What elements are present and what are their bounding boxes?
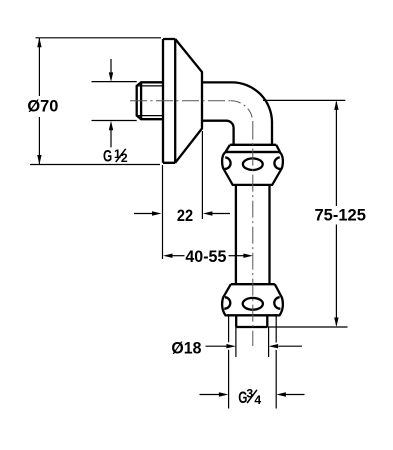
svg-text:2: 2	[121, 151, 128, 165]
union nut top: center ellipse	[243, 158, 263, 170]
dim 22: left arrow shaft	[134, 213, 153, 215]
horizontal centerline through flange axis	[130, 100, 231, 102]
dim G1/2: bottom extension line	[92, 120, 137, 122]
arrow Ø70 bottom (down)	[37, 155, 41, 165]
dim 75-125: top extension line	[263, 99, 345, 101]
arrow 40-55 left (left)	[163, 254, 173, 258]
arrow 22 left (right)	[152, 211, 162, 215]
arrow G3/4 right (left)	[276, 392, 286, 396]
dim 22 / 40-55: left extension line (wall face)	[162, 165, 164, 259]
centerline arc in elbow	[231, 101, 253, 123]
wall flange plate	[163, 39, 175, 163]
arrow Ø18 left (right)	[226, 344, 236, 348]
dim 40-55: right shaft	[229, 255, 245, 257]
dim G3/4: right arrow shaft	[285, 394, 305, 396]
union nut top: step line	[230, 144, 276, 146]
arrow Ø70 top (up)	[37, 38, 41, 48]
arrow 22 right (left)	[203, 211, 213, 215]
nipple thread-start line	[140, 82, 142, 119]
union nut top: right facet arc	[274, 157, 280, 169]
dim Ø70: bottom extension line	[30, 164, 160, 166]
dim G1/2: upper arrow shaft	[110, 59, 112, 74]
flange cone	[175, 39, 202, 163]
thin thread minor lines of nipple	[137, 86, 163, 116]
dim 22: right arrow shaft	[211, 213, 230, 215]
arrow 75-125 top (up)	[334, 100, 338, 110]
dim 75-125: bottom extension line	[268, 326, 348, 328]
svg-text:75-125: 75-125	[314, 206, 366, 224]
ext lines from nut corners down through G3/4 dim	[229, 316, 277, 409]
svg-text:4: 4	[254, 393, 261, 407]
union nut top: chamfer band	[226, 145, 281, 152]
label G3/4	[238, 387, 261, 407]
union nut bottom: left facet arc	[224, 297, 230, 309]
svg-text:40-55: 40-55	[185, 248, 226, 266]
dim Ø70: dimension line	[38, 38, 40, 165]
outlet stub	[236, 315, 267, 327]
dim 75-125: dimension line	[335, 102, 337, 325]
dim G3/4: left arrow shaft	[200, 394, 220, 396]
svg-text:Ø70: Ø70	[27, 98, 58, 116]
arrow G1/2 lower (up)	[109, 121, 113, 131]
elbow pipe outline	[202, 82, 272, 144]
svg-text:G: G	[103, 147, 112, 165]
union nut bottom: right facet arc	[274, 297, 280, 309]
vertical centerline through pipe axis	[252, 123, 254, 346]
svg-text:22: 22	[177, 207, 193, 225]
dim Ø18: right arrow shaft	[278, 345, 302, 347]
label G1/2	[103, 147, 128, 166]
centerlines	[130, 101, 253, 346]
union nut bottom: center ellipse	[243, 298, 263, 310]
dim Ø18: extension lines below stub	[236, 327, 269, 357]
arrow 40-55 right (right)	[243, 254, 253, 258]
union nut bottom: bottom edge	[227, 314, 278, 316]
middle pipe	[236, 185, 270, 284]
union nut top: body	[222, 152, 283, 185]
arrow G1/2 upper (down)	[109, 72, 113, 82]
arrow 75-125 bottom (down)	[334, 318, 338, 328]
svg-text:Ø18: Ø18	[171, 340, 201, 358]
dim Ø18: left arrow shaft	[206, 345, 228, 347]
dim Ø70: top extension line	[36, 37, 162, 39]
arrow Ø18 right (left)	[269, 344, 279, 348]
union nut top: left facet arc	[225, 157, 231, 169]
arrowheads	[37, 38, 338, 397]
dim 40-55: left shaft	[171, 255, 185, 257]
dim G1/2: lower arrow shaft	[110, 130, 112, 148]
threaded nipple G1/2	[137, 82, 163, 119]
arrow G3/4 left (right)	[219, 392, 229, 396]
union nut bottom: body	[222, 284, 283, 315]
dim G1/2: top extension line	[92, 81, 137, 83]
dim 22: right extension line	[201, 131, 203, 219]
